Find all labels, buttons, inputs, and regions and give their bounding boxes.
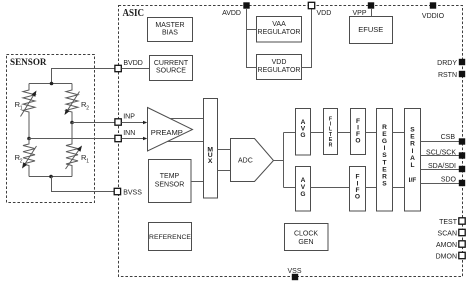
svg-text:TEST: TEST <box>439 219 458 226</box>
svg-text:I: I <box>412 148 414 155</box>
wire preamp out bottom <box>168 141 204 143</box>
svg-text:AMON: AMON <box>436 242 457 249</box>
svg-text:SCL/SCK: SCL/SCK <box>426 149 456 156</box>
svg-text:SENSOR: SENSOR <box>155 182 185 189</box>
block temp sensor <box>149 160 192 203</box>
svg-text:VDDIO: VDDIO <box>422 13 445 20</box>
svg-text:RSTN: RSTN <box>438 72 457 79</box>
wire BVDD to current source <box>122 68 150 70</box>
wire adc out <box>274 160 284 162</box>
block clock gen <box>285 224 329 251</box>
svg-text:VDD: VDD <box>317 10 332 17</box>
svg-text:VDD: VDD <box>272 59 287 66</box>
wire INP to preamp <box>122 122 144 124</box>
pad AMON <box>459 241 465 247</box>
svg-text:ADC: ADC <box>238 158 253 165</box>
svg-text:DRDY: DRDY <box>437 60 457 67</box>
block FIFO top <box>351 109 366 155</box>
svg-text:ASIC: ASIC <box>123 8 145 19</box>
wire bridge to BVSS <box>52 177 115 192</box>
wire preamp out top <box>170 118 203 120</box>
pad INN <box>115 135 121 141</box>
svg-text:T: T <box>382 159 386 166</box>
svg-text:BIAS: BIAS <box>162 30 178 37</box>
svg-text:S: S <box>410 127 415 134</box>
svg-text:CURRENT: CURRENT <box>154 60 189 67</box>
pad BVSS <box>114 188 120 194</box>
svg-text:E: E <box>382 131 387 138</box>
wire temp sensor to mux <box>191 181 204 183</box>
svg-text:SDO: SDO <box>441 176 457 183</box>
svg-text:CSB: CSB <box>441 134 456 141</box>
wire CSB <box>421 141 460 143</box>
wire bridge bottom rail <box>29 176 72 178</box>
wire fifo1 to registers <box>366 132 377 134</box>
svg-text:EFUSE: EFUSE <box>358 25 383 34</box>
svg-text:1: 1 <box>20 106 23 112</box>
svg-text:VAA: VAA <box>272 21 286 28</box>
sensor enclosure <box>7 55 95 203</box>
wire SDO <box>421 183 460 185</box>
node INN branch <box>27 137 31 141</box>
svg-text:BVSS: BVSS <box>123 190 142 197</box>
wire AVDD net <box>247 9 257 68</box>
svg-text:S: S <box>382 152 387 159</box>
svg-text:INN: INN <box>123 130 135 137</box>
wire bridge riser to BVDD <box>52 69 115 84</box>
pad RSTN <box>459 71 465 77</box>
svg-text:BVDD: BVDD <box>123 60 142 67</box>
block reference <box>149 223 192 251</box>
wire INN from bridge <box>29 138 115 140</box>
svg-text:AVDD: AVDD <box>222 10 241 17</box>
wire SCL/SCK <box>421 155 460 157</box>
svg-text:E: E <box>382 166 387 173</box>
block ADC <box>231 139 274 182</box>
pad AVDD <box>243 2 249 8</box>
svg-text:R: R <box>329 142 333 148</box>
node bridge top <box>50 82 54 86</box>
wire fifo2 to registers <box>366 187 377 189</box>
svg-text:SOURCE: SOURCE <box>156 68 186 75</box>
pad VDD <box>308 2 314 8</box>
block AVG top <box>296 109 311 156</box>
svg-text:R: R <box>410 141 415 148</box>
wire mux to adc bottom <box>218 170 231 172</box>
wire split to avg1 <box>284 132 296 134</box>
wire avg1 to filter <box>311 132 324 134</box>
svg-text:CLOCK: CLOCK <box>294 231 318 238</box>
resistor R1 bottom-right <box>66 123 90 177</box>
asic enclosure <box>119 6 463 277</box>
svg-text:SCAN: SCAN <box>438 231 457 238</box>
svg-text:O: O <box>355 194 360 201</box>
pad SDO <box>459 180 465 186</box>
pad DRDY <box>459 59 465 65</box>
pad TEST <box>459 218 465 224</box>
resistor R2 bottom-left <box>15 139 37 177</box>
wire split to avg2 <box>284 187 296 189</box>
block AVG bottom <box>296 167 311 212</box>
wire registers to serial top <box>393 132 405 134</box>
svg-text:G: G <box>382 138 387 145</box>
svg-text:E: E <box>410 134 415 141</box>
svg-text:L: L <box>410 162 414 169</box>
node bridge bottom <box>49 175 53 179</box>
svg-text:VSS: VSS <box>287 268 301 275</box>
block VAA regulator <box>257 17 302 43</box>
wire SDA/SDI <box>421 169 460 171</box>
svg-text:A: A <box>410 155 415 162</box>
svg-text:REGULATOR: REGULATOR <box>258 67 301 74</box>
block current source <box>150 56 193 81</box>
svg-text:TEMP: TEMP <box>160 173 180 180</box>
block master bias <box>148 18 193 42</box>
pad DMON <box>459 252 465 258</box>
svg-text:REGULATOR: REGULATOR <box>258 29 301 36</box>
svg-text:I: I <box>384 145 386 152</box>
resistor R2 top-right <box>65 84 90 123</box>
pad VSS <box>292 274 298 280</box>
pad VDDIO <box>430 2 436 8</box>
wire INN to preamp <box>122 138 144 140</box>
wire filter to fifo1 <box>338 132 351 134</box>
block VDD regulator <box>257 55 302 80</box>
block MUX <box>204 99 218 199</box>
wire VDD net <box>302 9 312 68</box>
svg-text:INP: INP <box>123 114 135 121</box>
svg-text:I/F: I/F <box>409 177 417 184</box>
svg-text:VPP: VPP <box>352 10 366 17</box>
svg-text:2: 2 <box>20 159 23 165</box>
svg-text:S: S <box>382 181 387 188</box>
wire adc split vertical <box>283 133 285 188</box>
svg-text:DMON: DMON <box>436 254 457 261</box>
svg-text:SDA/SDI: SDA/SDI <box>428 163 456 170</box>
svg-text:X: X <box>208 158 213 165</box>
svg-text:REFERENCE: REFERENCE <box>149 234 191 241</box>
wire mux to adc top <box>218 149 231 151</box>
pad SCAN <box>459 229 465 235</box>
resistor R1 top-left <box>15 84 37 139</box>
svg-text:SENSOR: SENSOR <box>10 57 47 68</box>
svg-text:G: G <box>300 132 305 139</box>
wire INP from bridge <box>72 122 115 124</box>
wire avg2 to fifo2 <box>311 187 350 189</box>
pad SCL/SCK <box>459 152 465 158</box>
svg-text:2: 2 <box>86 106 89 112</box>
block SERIAL I/F <box>405 109 421 212</box>
node INP branch <box>70 121 74 125</box>
block FIFO bottom <box>350 167 366 212</box>
pad BVDD <box>115 65 121 71</box>
svg-text:R: R <box>382 124 387 131</box>
pad VPP <box>368 2 374 8</box>
svg-text:MASTER: MASTER <box>155 22 184 29</box>
svg-text:O: O <box>355 138 360 145</box>
op-amp PREAMP <box>148 108 193 152</box>
svg-text:R: R <box>382 174 387 181</box>
svg-text:G: G <box>300 191 305 198</box>
pad SDA/SDI <box>459 166 465 172</box>
wire registers to serial bottom <box>393 187 405 189</box>
block FILTER <box>324 109 338 155</box>
pad INP <box>115 119 121 125</box>
svg-text:1: 1 <box>86 159 89 165</box>
wire bridge top rail <box>29 83 72 85</box>
block efuse <box>350 17 393 44</box>
pad CSB <box>459 138 465 144</box>
block REGISTERS <box>377 109 393 212</box>
svg-text:PREAMP: PREAMP <box>151 128 183 137</box>
svg-text:GEN: GEN <box>298 239 313 246</box>
wire VPP to efuse <box>371 9 373 17</box>
